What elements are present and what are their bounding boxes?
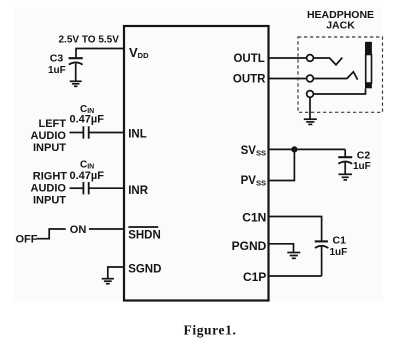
svg-text:1uF: 1uF <box>330 247 348 258</box>
svg-text:0.47µF: 0.47µF <box>70 114 105 126</box>
svg-text:C1: C1 <box>333 234 347 246</box>
wire CIN to INR pin <box>89 187 124 189</box>
svg-text:PGND: PGND <box>232 239 267 253</box>
svg-text:Figure1.: Figure1. <box>184 323 237 338</box>
capacitor C1 <box>315 241 329 276</box>
svg-text:C2: C2 <box>357 149 371 161</box>
svg-text:C3: C3 <box>50 52 64 64</box>
svg-text:LEFT: LEFT <box>39 118 67 130</box>
svg-text:RIGHT: RIGHT <box>33 171 68 183</box>
HEADPHONE JACK label <box>307 9 374 32</box>
wire ON to SHDN pin <box>89 228 124 230</box>
svg-text:OUTR: OUTR <box>233 73 266 85</box>
ground (C3) <box>70 81 82 86</box>
capacitor CIN (left) <box>83 126 88 138</box>
ground (jack) <box>304 119 317 124</box>
svg-text:AUDIO: AUDIO <box>31 130 67 142</box>
svg-text:INR: INR <box>128 185 149 197</box>
ground (SGND) <box>102 279 114 284</box>
svg-text:INPUT: INPUT <box>33 142 66 154</box>
svg-text:2.5V TO 5.5V: 2.5V TO 5.5V <box>59 35 120 46</box>
capacitor C3 <box>69 58 83 80</box>
wire C1 to C1P pin <box>269 275 322 277</box>
wire SGND to ground <box>108 267 124 278</box>
wire PGND to ground <box>269 244 294 252</box>
jack tip contact (OUTL) <box>307 55 343 65</box>
svg-text:SGND: SGND <box>128 264 161 276</box>
ground (PGND) <box>287 253 300 259</box>
svg-text:C1P: C1P <box>243 270 266 284</box>
wire CIN to INL pin <box>89 132 124 134</box>
LEFT AUDIO INPUT label <box>31 118 67 154</box>
jack plug symbol <box>365 42 372 89</box>
pin SHDN label (with overline) <box>128 227 161 241</box>
jack ring contact (OUTR) <box>307 72 358 82</box>
svg-text:JACK: JACK <box>326 20 355 32</box>
wire right input to CIN <box>70 187 84 189</box>
svg-text:OFF: OFF <box>16 234 38 246</box>
wire switch OFF arm <box>37 229 66 239</box>
svg-text:SHDN: SHDN <box>128 229 161 241</box>
wire left input to CIN <box>70 132 84 134</box>
svg-text:ON: ON <box>70 224 87 236</box>
capacitor C2 <box>338 149 352 173</box>
svg-text:1uF: 1uF <box>353 161 371 172</box>
ground (C2) <box>339 174 353 180</box>
wire SVSS to C2 <box>269 148 345 150</box>
capacitor CIN (right) <box>83 182 88 194</box>
svg-text:0.47µF: 0.47µF <box>70 170 105 182</box>
wire C1N to C1 <box>269 217 322 242</box>
wire OUTR to jack ring <box>269 78 307 80</box>
wire supply to VDD pin <box>76 49 124 58</box>
svg-text:INPUT: INPUT <box>33 195 66 207</box>
node junction SVSS/PVSS <box>291 146 297 152</box>
svg-text:AUDIO: AUDIO <box>31 183 67 195</box>
IC U1 (headphone amplifier) <box>124 26 269 301</box>
RIGHT AUDIO INPUT label <box>31 171 68 207</box>
svg-text:OUTL: OUTL <box>233 53 264 65</box>
headphone jack dashed outline <box>298 37 383 112</box>
wire junction down to PVSS <box>269 149 294 180</box>
wire OUTL to jack tip <box>269 57 307 59</box>
svg-text:INL: INL <box>128 129 147 141</box>
svg-text:1uF: 1uF <box>48 65 66 76</box>
jack sleeve contact <box>307 89 366 98</box>
wire sleeve to ground <box>309 97 311 118</box>
svg-text:C1N: C1N <box>242 210 266 224</box>
